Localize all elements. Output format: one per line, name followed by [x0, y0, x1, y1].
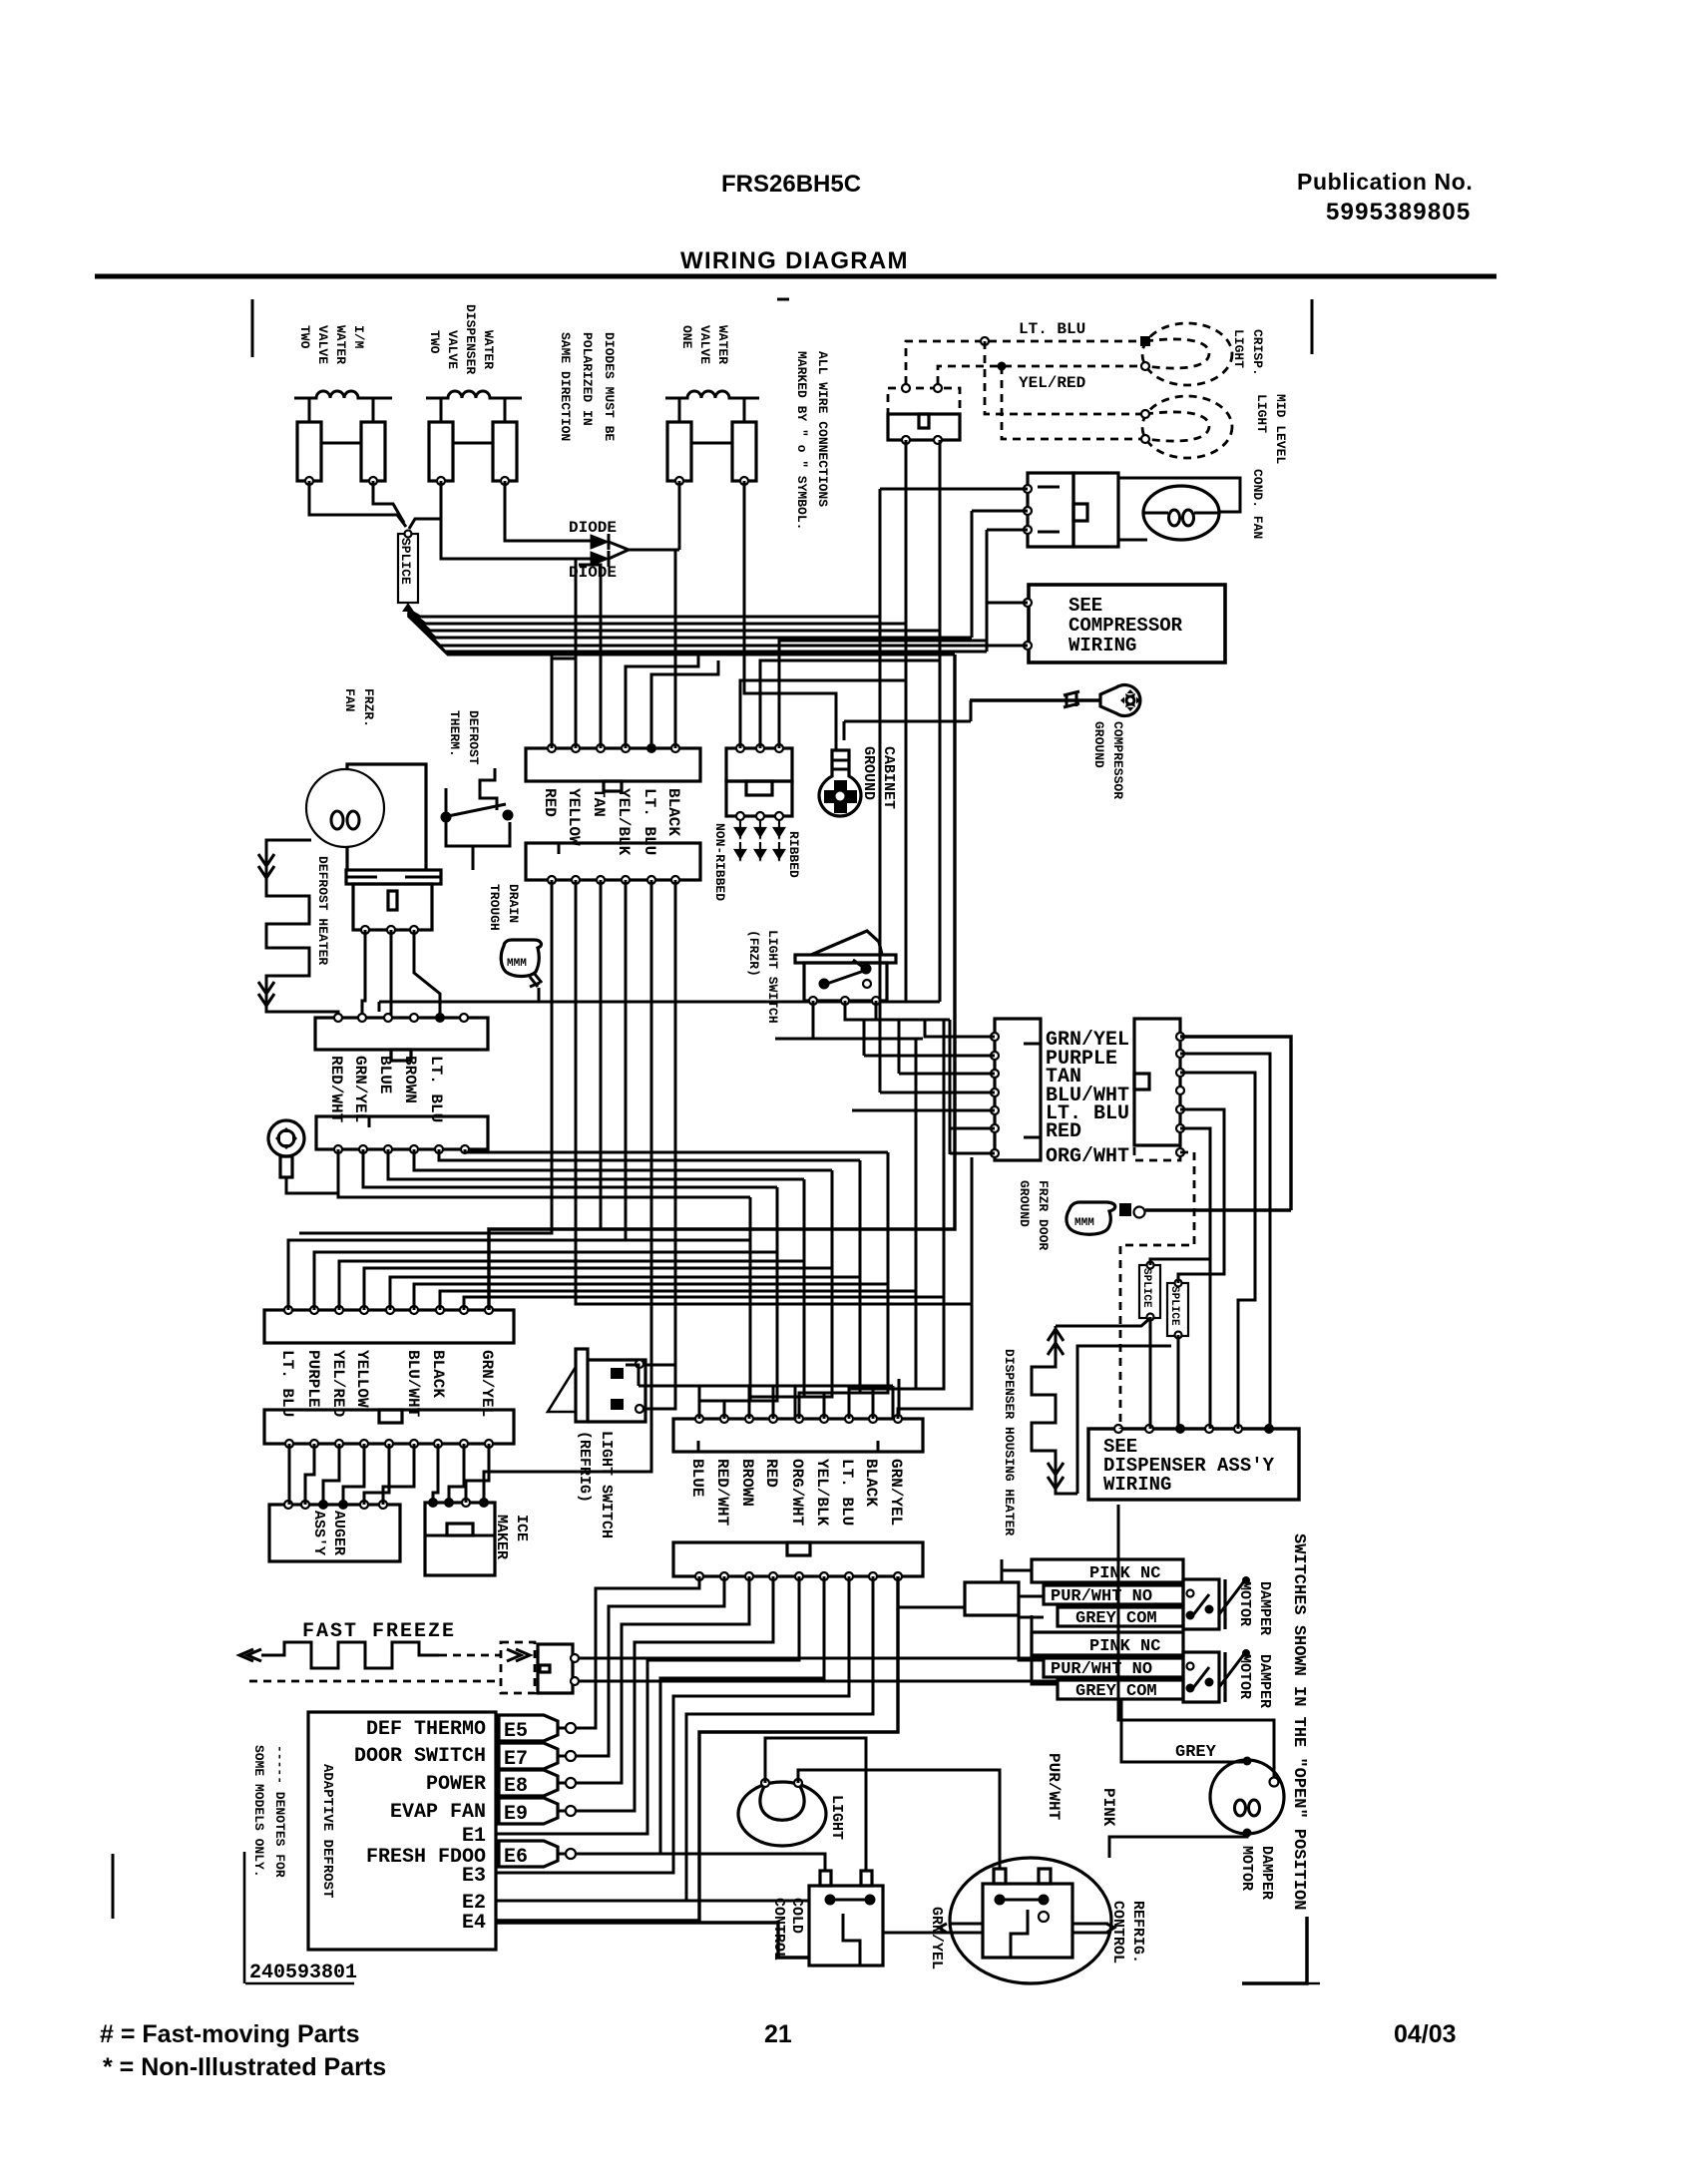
wire splice S3 bottom down	[1177, 1335, 1180, 1429]
valve V1 terminals	[305, 477, 313, 485]
wire splice S2 bottom down	[1149, 1317, 1152, 1429]
svg-text:SPLICE: SPLICE	[398, 538, 413, 585]
wire merged diode output to node at valve V3 left wire	[629, 549, 679, 552]
svg-text:DAMPER: DAMPER	[1256, 1654, 1273, 1708]
E2 row	[496, 1900, 809, 1903]
vertical trunk x901 tan	[898, 1020, 901, 1074]
svg-text:COMPRESSOR: COMPRESSOR	[1068, 615, 1183, 637]
svg-text:BROWN: BROWN	[401, 1056, 419, 1103]
svg-text:ONE: ONE	[679, 325, 694, 349]
svg-text:GRN/YEL: GRN/YEL	[928, 1907, 945, 1969]
svg-text:LIGHT SWITCH: LIGHT SWITCH	[765, 930, 780, 1024]
svg-text:YEL/BLK: YEL/BLK	[813, 1459, 831, 1527]
small dash	[777, 298, 789, 301]
svg-text:PINK NC: PINK NC	[1089, 1637, 1160, 1656]
svg-text:RED: RED	[1046, 1120, 1081, 1143]
light switch connector (dashed top)	[888, 388, 960, 414]
bottom right corner mark	[1242, 1917, 1307, 1983]
splice S1	[398, 534, 418, 603]
svg-text:----- DENOTES FOR: ----- DENOTES FOR	[272, 1745, 287, 1878]
splice S3	[1167, 1283, 1188, 1336]
wire dashed to LT. BLU node	[906, 341, 1143, 384]
wire CN1 terminal feeds from above	[552, 655, 576, 748]
svg-text:E9: E9	[504, 1803, 528, 1826]
svg-text:BLUE: BLUE	[376, 1056, 394, 1093]
damper motor bottom wire	[1109, 1833, 1247, 1858]
connector CN2 (drain harness)	[526, 843, 700, 880]
svg-text:LIGHT SWITCH: LIGHT SWITCH	[598, 1431, 615, 1538]
stair connector D to E spades	[576, 1576, 699, 1728]
svg-text:GRN/YEL: GRN/YEL	[351, 1056, 369, 1122]
svg-text:CABINET: CABINET	[880, 746, 897, 809]
valve V3 terminals	[675, 477, 683, 485]
svg-text:CONTROL: CONTROL	[1109, 1901, 1126, 1964]
long verticals from CN2	[299, 880, 552, 1233]
svg-text:LT. BLU: LT. BLU	[838, 1459, 856, 1526]
damper motor right wire	[1118, 1505, 1274, 1778]
defrost timer frame	[347, 764, 426, 870]
connector CN1 (red..black)	[526, 748, 700, 781]
connector CL2 (bottom)	[316, 1116, 488, 1149]
wires timer terminals to connector CL1	[362, 930, 365, 1018]
wire valve V2 left tap to splice S1	[409, 519, 441, 529]
cond fan motor	[1143, 486, 1219, 540]
wire valve V3 right to cabinet ground	[744, 481, 836, 750]
svg-text:TROUGH: TROUGH	[487, 884, 502, 931]
svg-text:MOTOR: MOTOR	[1236, 1654, 1253, 1699]
svg-text:CRISP.: CRISP.	[1250, 329, 1265, 376]
grn/yel wire cold to refrig	[883, 1932, 949, 1935]
svg-text:BLACK: BLACK	[664, 788, 682, 836]
svg-text:COLD: COLD	[788, 1898, 805, 1934]
cabinet ground	[819, 750, 861, 816]
dash-dot connector shell	[501, 1642, 535, 1693]
svg-text:GRN/YEL: GRN/YEL	[887, 1459, 905, 1526]
svg-text:E5: E5	[504, 1720, 528, 1743]
svg-text:DEF THERMO: DEF THERMO	[366, 1718, 486, 1741]
ribbed arrows	[735, 820, 745, 858]
svg-text:ORG/WHT: ORG/WHT	[788, 1459, 806, 1527]
svg-text:RED: RED	[762, 1459, 780, 1488]
svg-text:DAMPER: DAMPER	[1258, 1846, 1275, 1900]
svg-text:MOTOR: MOTOR	[1236, 1581, 1253, 1626]
svg-text:FAST FREEZE: FAST FREEZE	[302, 1620, 456, 1643]
svg-text:AUGER: AUGER	[330, 1511, 347, 1555]
rocker t1 wire	[775, 1001, 813, 1039]
wire valve V3 left terminal down	[678, 481, 681, 550]
diode D1	[591, 535, 609, 549]
fan wires connector A to trunk	[288, 1240, 750, 1310]
svg-text:SAME DIRECTION: SAME DIRECTION	[558, 332, 573, 441]
svg-text:YEL/RED: YEL/RED	[1019, 374, 1085, 392]
left page mark	[112, 1854, 115, 1919]
light switch wires down	[905, 440, 908, 1002]
fan wires CL2 to trunk	[338, 1149, 750, 1197]
frzr fan motor	[306, 769, 384, 847]
svg-text:LIGHT: LIGHT	[1231, 329, 1246, 368]
svg-text:E7: E7	[504, 1748, 528, 1771]
wire lt blu from door to splice S3	[1178, 1109, 1224, 1283]
svg-text:(FRZR): (FRZR)	[746, 930, 761, 977]
svg-text:E3: E3	[462, 1865, 486, 1888]
svg-text:POWER: POWER	[426, 1773, 486, 1796]
wire diode outputs merge	[609, 542, 629, 559]
svg-text:DISPENSER: DISPENSER	[463, 304, 478, 374]
connector B (lower)	[264, 1410, 514, 1444]
wire diode D1 input from valve V2 right	[505, 481, 591, 541]
auger assembly box	[269, 1505, 400, 1561]
damper motor	[1210, 1760, 1284, 1834]
grey wire to damper motor	[1121, 1699, 1243, 1762]
svg-text:TWO: TWO	[297, 325, 312, 349]
svg-text:GREY COM: GREY COM	[1075, 1609, 1157, 1628]
splice S1 bottom arrow	[402, 603, 414, 612]
refrig light switch	[576, 1349, 588, 1422]
svg-text:SEE: SEE	[1068, 595, 1102, 617]
svg-text:E6: E6	[504, 1846, 528, 1869]
svg-text:REFRIG.: REFRIG.	[1129, 1901, 1146, 1964]
svg-text:MOTOR: MOTOR	[1238, 1846, 1255, 1891]
svg-text:PUR/WHT: PUR/WHT	[1045, 1753, 1063, 1821]
connector C upper feeds	[639, 1385, 893, 1388]
damper switch stack 1	[1032, 1559, 1183, 1582]
svg-text:PURPLE: PURPLE	[304, 1350, 322, 1408]
svg-text:FAN: FAN	[342, 688, 357, 711]
cond fan t3 + compressor t1 wire	[987, 530, 1028, 652]
wire bundle from splice S1 fan	[408, 610, 880, 617]
svg-text:BLACK: BLACK	[862, 1459, 880, 1507]
svg-text:TWO: TWO	[427, 330, 442, 354]
heater return wire	[1077, 1346, 1171, 1494]
svg-text:DAMPER: DAMPER	[1256, 1581, 1273, 1635]
ribbed connector	[726, 748, 792, 781]
svg-text:MMM: MMM	[507, 958, 527, 970]
ice maker box	[425, 1503, 495, 1575]
wire valve V1 left to splice S1	[309, 481, 406, 527]
vertical trunk x882	[879, 489, 882, 1092]
node on LT BLU	[981, 337, 989, 345]
svg-text:BLU/WHT: BLU/WHT	[404, 1350, 422, 1418]
svg-text:GRN/YEL: GRN/YEL	[478, 1350, 496, 1417]
svg-text:EVAP FAN: EVAP FAN	[390, 1801, 486, 1824]
fast freeze outputs	[579, 1657, 1044, 1660]
svg-text:* = Non-Illustrated Parts: * = Non-Illustrated Parts	[103, 2053, 386, 2081]
svg-text:WATER: WATER	[715, 325, 730, 364]
door connector left	[995, 1019, 1041, 1160]
svg-text:FRZR.: FRZR.	[361, 688, 376, 727]
wire dashed down to mid light 1	[985, 341, 1143, 414]
defrost thermostat	[480, 768, 497, 810]
E4 row	[496, 1923, 809, 1958]
board box	[308, 1712, 496, 1950]
svg-text:SPLICE: SPLICE	[1140, 1268, 1152, 1308]
svg-text:RED: RED	[541, 788, 559, 817]
dispenser housing heater element	[1032, 1326, 1077, 1494]
svg-text:FRS26BH5C: FRS26BH5C	[721, 171, 861, 198]
svg-text:PUR/WHT NO: PUR/WHT NO	[1051, 1587, 1152, 1606]
square wave	[261, 1642, 439, 1668]
wires into ribbed connector from right verticals	[740, 680, 906, 748]
trunk verticals to connector C	[699, 1197, 750, 1419]
svg-text:GROUND: GROUND	[1091, 721, 1106, 768]
fast freeze switch box	[538, 1644, 573, 1693]
valve V3 body	[667, 422, 691, 481]
grn/yel trunk	[489, 655, 955, 1310]
svg-text:LT. BLU: LT. BLU	[278, 1350, 296, 1417]
wire valve V1 right to splice S1	[373, 481, 404, 523]
cond fan outer frame	[1118, 478, 1240, 540]
spade E7	[499, 1743, 558, 1769]
svg-text:RIBBED: RIBBED	[786, 831, 801, 878]
cond fan t2 wire	[972, 511, 1028, 638]
svg-text:TAN: TAN	[590, 788, 608, 817]
svg-text:VALVE: VALVE	[315, 325, 330, 364]
valve V3 coil	[665, 391, 759, 398]
svg-text:LIGHT: LIGHT	[1254, 394, 1269, 433]
svg-text:FRZR DOOR: FRZR DOOR	[1036, 1180, 1051, 1250]
cond fan t1 wire	[880, 488, 1028, 491]
rocker t2/t3 wire	[845, 1001, 950, 1020]
svg-text:WIRING: WIRING	[1103, 1474, 1171, 1496]
svg-text:SOME MODELS ONLY.: SOME MODELS ONLY.	[251, 1745, 266, 1878]
wire diode D2 input from valve V2 left branch	[441, 481, 591, 559]
svg-text:PINK NC: PINK NC	[1089, 1564, 1160, 1583]
spade E6	[499, 1841, 558, 1867]
connector A	[264, 1310, 514, 1343]
left tick	[251, 299, 254, 357]
svg-text:DISPENSER HOUSING HEATER: DISPENSER HOUSING HEATER	[1002, 1349, 1017, 1535]
svg-text:THERM.: THERM.	[447, 710, 462, 757]
ground screw	[268, 1120, 304, 1156]
wire tan from door down with jog	[1180, 1073, 1255, 1429]
wire dashed YEL/RED	[938, 366, 1143, 384]
svg-text:WATER: WATER	[333, 325, 348, 364]
light bulb	[738, 1782, 826, 1846]
vertical trunk x866 purple	[863, 1020, 866, 1056]
svg-text:GROUND: GROUND	[860, 746, 877, 800]
svg-text:SWITCHES SHOWN IN THE "OPEN" P: SWITCHES SHOWN IN THE "OPEN" POSITION	[1289, 1533, 1308, 1910]
svg-text:DIODES MUST BE: DIODES MUST BE	[602, 332, 617, 441]
svg-text:MAKER: MAKER	[493, 1515, 510, 1559]
drain trough ground	[501, 940, 541, 977]
valve V2 terminals	[437, 477, 445, 485]
svg-text:(REFRIG): (REFRIG)	[576, 1431, 593, 1503]
svg-text:ORG/WHT: ORG/WHT	[1046, 1145, 1129, 1168]
svg-text:240593801: 240593801	[249, 1962, 357, 1984]
valve V1 coil	[294, 391, 392, 398]
svg-text:NON-RIBBED: NON-RIBBED	[712, 823, 727, 901]
defrost timer body	[346, 870, 441, 884]
connector C (upper)	[673, 1419, 923, 1452]
cold control	[820, 1871, 831, 1886]
svg-text:LT. BLU: LT. BLU	[640, 788, 658, 855]
svg-text:LIGHT: LIGHT	[828, 1795, 845, 1840]
svg-text:MARKED BY " o " SYMBOL.: MARKED BY " o " SYMBOL.	[794, 351, 809, 530]
svg-text:E8: E8	[504, 1775, 528, 1798]
svg-text:YEL/RED: YEL/RED	[329, 1350, 347, 1417]
damper switch stack 2	[1032, 1632, 1183, 1655]
svg-text:VALVE: VALVE	[697, 325, 712, 364]
svg-text:5995389805: 5995389805	[1326, 199, 1471, 225]
connector D (lower)	[673, 1542, 923, 1576]
wire org/wht dashed	[1120, 1152, 1194, 1429]
svg-text:MMM: MMM	[1074, 1217, 1094, 1229]
svg-text:YELLOW: YELLOW	[353, 1350, 371, 1408]
spade E5	[499, 1715, 558, 1741]
light wires	[765, 1738, 866, 1871]
svg-text:BROWN: BROWN	[738, 1459, 756, 1507]
svg-text:DOOR SWITCH: DOOR SWITCH	[354, 1745, 486, 1768]
frzr door ground	[1067, 1202, 1115, 1234]
defrost heater element	[266, 840, 338, 1018]
wire therm left lead	[445, 788, 448, 817]
wire grn/yel from door to ground run	[1180, 1037, 1291, 1210]
svg-text:PUR/WHT NO: PUR/WHT NO	[1051, 1660, 1152, 1679]
wire dashed down to mid light 2	[1002, 366, 1143, 439]
diode D2	[591, 552, 609, 566]
damper feed wires	[898, 1576, 965, 1607]
valve V1 body	[297, 422, 321, 481]
svg-text:MID LEVEL: MID LEVEL	[1273, 394, 1288, 464]
svg-text:# = Fast-moving Parts: # = Fast-moving Parts	[100, 2020, 360, 2048]
frzr door ground wire	[1145, 1208, 1291, 1211]
cond fan connector	[1028, 473, 1073, 547]
svg-text:COMPRESSOR: COMPRESSOR	[1110, 721, 1125, 799]
wire red from door down to splice S2 and terminal	[1150, 1128, 1210, 1429]
svg-text:POLARIZED IN: POLARIZED IN	[580, 332, 595, 426]
svg-text:ADAPTIVE DEFROST: ADAPTIVE DEFROST	[319, 1764, 335, 1898]
svg-text:BLACK: BLACK	[429, 1350, 447, 1398]
compressor ground	[970, 698, 1100, 701]
crisp light	[1142, 323, 1232, 385]
svg-text:LT. BLU: LT. BLU	[427, 1056, 445, 1122]
E6 row to cold control	[576, 1854, 825, 1871]
drain trough wire	[379, 1002, 940, 1012]
splice S2	[1139, 1265, 1160, 1318]
compressor ground left wire	[844, 700, 971, 721]
svg-text:E1: E1	[462, 1825, 486, 1848]
svg-text:GREY COM: GREY COM	[1075, 1682, 1157, 1701]
title rule	[95, 274, 1496, 279]
see dispenser ass'y wiring box	[1088, 1429, 1299, 1500]
svg-text:ICE: ICE	[513, 1515, 530, 1541]
svg-text:SPLICE: SPLICE	[1168, 1286, 1180, 1326]
svg-text:BLUE: BLUE	[688, 1459, 706, 1497]
svg-text:Publication No.: Publication No.	[1297, 169, 1473, 195]
svg-text:ALL WIRE CONNECTIONS: ALL WIRE CONNECTIONS	[815, 351, 830, 507]
right tick	[1311, 299, 1314, 354]
refrig control	[950, 1858, 1111, 1983]
mid level light	[1142, 396, 1232, 458]
svg-text:DRAIN: DRAIN	[506, 884, 521, 923]
spade E8	[499, 1770, 558, 1796]
svg-text:GROUND: GROUND	[1017, 1180, 1032, 1227]
rocker light switch FRZR	[795, 955, 896, 963]
svg-text:21: 21	[764, 2020, 792, 2048]
svg-text:04/03: 04/03	[1394, 2020, 1457, 2048]
svg-text:RED/WHT: RED/WHT	[713, 1459, 731, 1527]
svg-text:YELLOW: YELLOW	[565, 788, 583, 846]
door row left horizontals	[899, 1073, 995, 1076]
wire purple from door down	[1180, 1054, 1270, 1429]
svg-text:E4: E4	[462, 1912, 486, 1935]
svg-text:RED/WHT: RED/WHT	[327, 1056, 345, 1123]
connector CL1 (top)	[315, 1018, 488, 1050]
light switch connector body	[888, 414, 960, 440]
svg-text:PINK: PINK	[1099, 1788, 1117, 1827]
svg-text:WATER: WATER	[481, 330, 496, 369]
svg-text:WIRING DIAGRAM: WIRING DIAGRAM	[680, 247, 909, 274]
valve V2 body	[429, 422, 453, 481]
svg-text:COND. FAN: COND. FAN	[1250, 469, 1265, 539]
svg-text:DEFROST HEATER: DEFROST HEATER	[315, 856, 330, 965]
door connector right	[1134, 1019, 1180, 1145]
see compressor wiring box	[1029, 585, 1225, 662]
wires connector B to auger/ice	[288, 1444, 291, 1505]
svg-text:VALVE: VALVE	[445, 330, 460, 369]
svg-text:I/M: I/M	[351, 325, 366, 349]
svg-text:DEFROST: DEFROST	[466, 710, 481, 765]
svg-text:YEL/BLK: YEL/BLK	[615, 788, 633, 856]
svg-text:ASS'Y: ASS'Y	[310, 1511, 327, 1555]
svg-text:LT. BLU: LT. BLU	[1019, 320, 1085, 338]
valve V2 coil	[426, 391, 522, 398]
svg-text:GREY: GREY	[1175, 1743, 1217, 1762]
spade E9	[499, 1798, 558, 1824]
svg-text:WIRING: WIRING	[1068, 635, 1136, 656]
